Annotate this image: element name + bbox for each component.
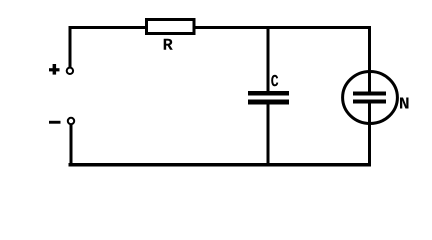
wire top horizontal (node A: + terminal to R to C to N) <box>69 26 372 29</box>
wire capacitor branch vertical lower (C bottom plate down to bottom wire) <box>267 101 270 167</box>
capacitor C top plate <box>248 91 289 96</box>
neon lamp N bottom electrode plate <box>353 100 386 104</box>
wire left vertical from - terminal down to bottom wire <box>70 125 73 167</box>
label R <box>164 39 173 50</box>
neon lamp N envelope (circle) <box>343 72 398 124</box>
resistor R (rectangle body) <box>147 20 195 34</box>
wire right vertical upper (top wire down into neon lamp top electrode) <box>368 26 371 93</box>
label + (polarity sign) <box>49 64 60 75</box>
terminal - (open circle) <box>68 118 74 124</box>
neon lamp N top electrode plate <box>353 92 386 96</box>
wire capacitor branch vertical upper (top wire down to C top plate) <box>267 26 270 93</box>
wire right vertical lower (neon lamp bottom electrode down to bottom wire) <box>368 101 371 167</box>
capacitor C bottom plate <box>248 100 289 105</box>
terminal + (open circle) <box>67 68 73 74</box>
wire left vertical from + terminal up to top wire <box>69 26 72 67</box>
label N <box>400 98 408 109</box>
wire bottom horizontal (node B: - terminal to C to N) <box>69 163 372 167</box>
label C <box>271 75 278 86</box>
label - (polarity sign) <box>49 121 61 124</box>
